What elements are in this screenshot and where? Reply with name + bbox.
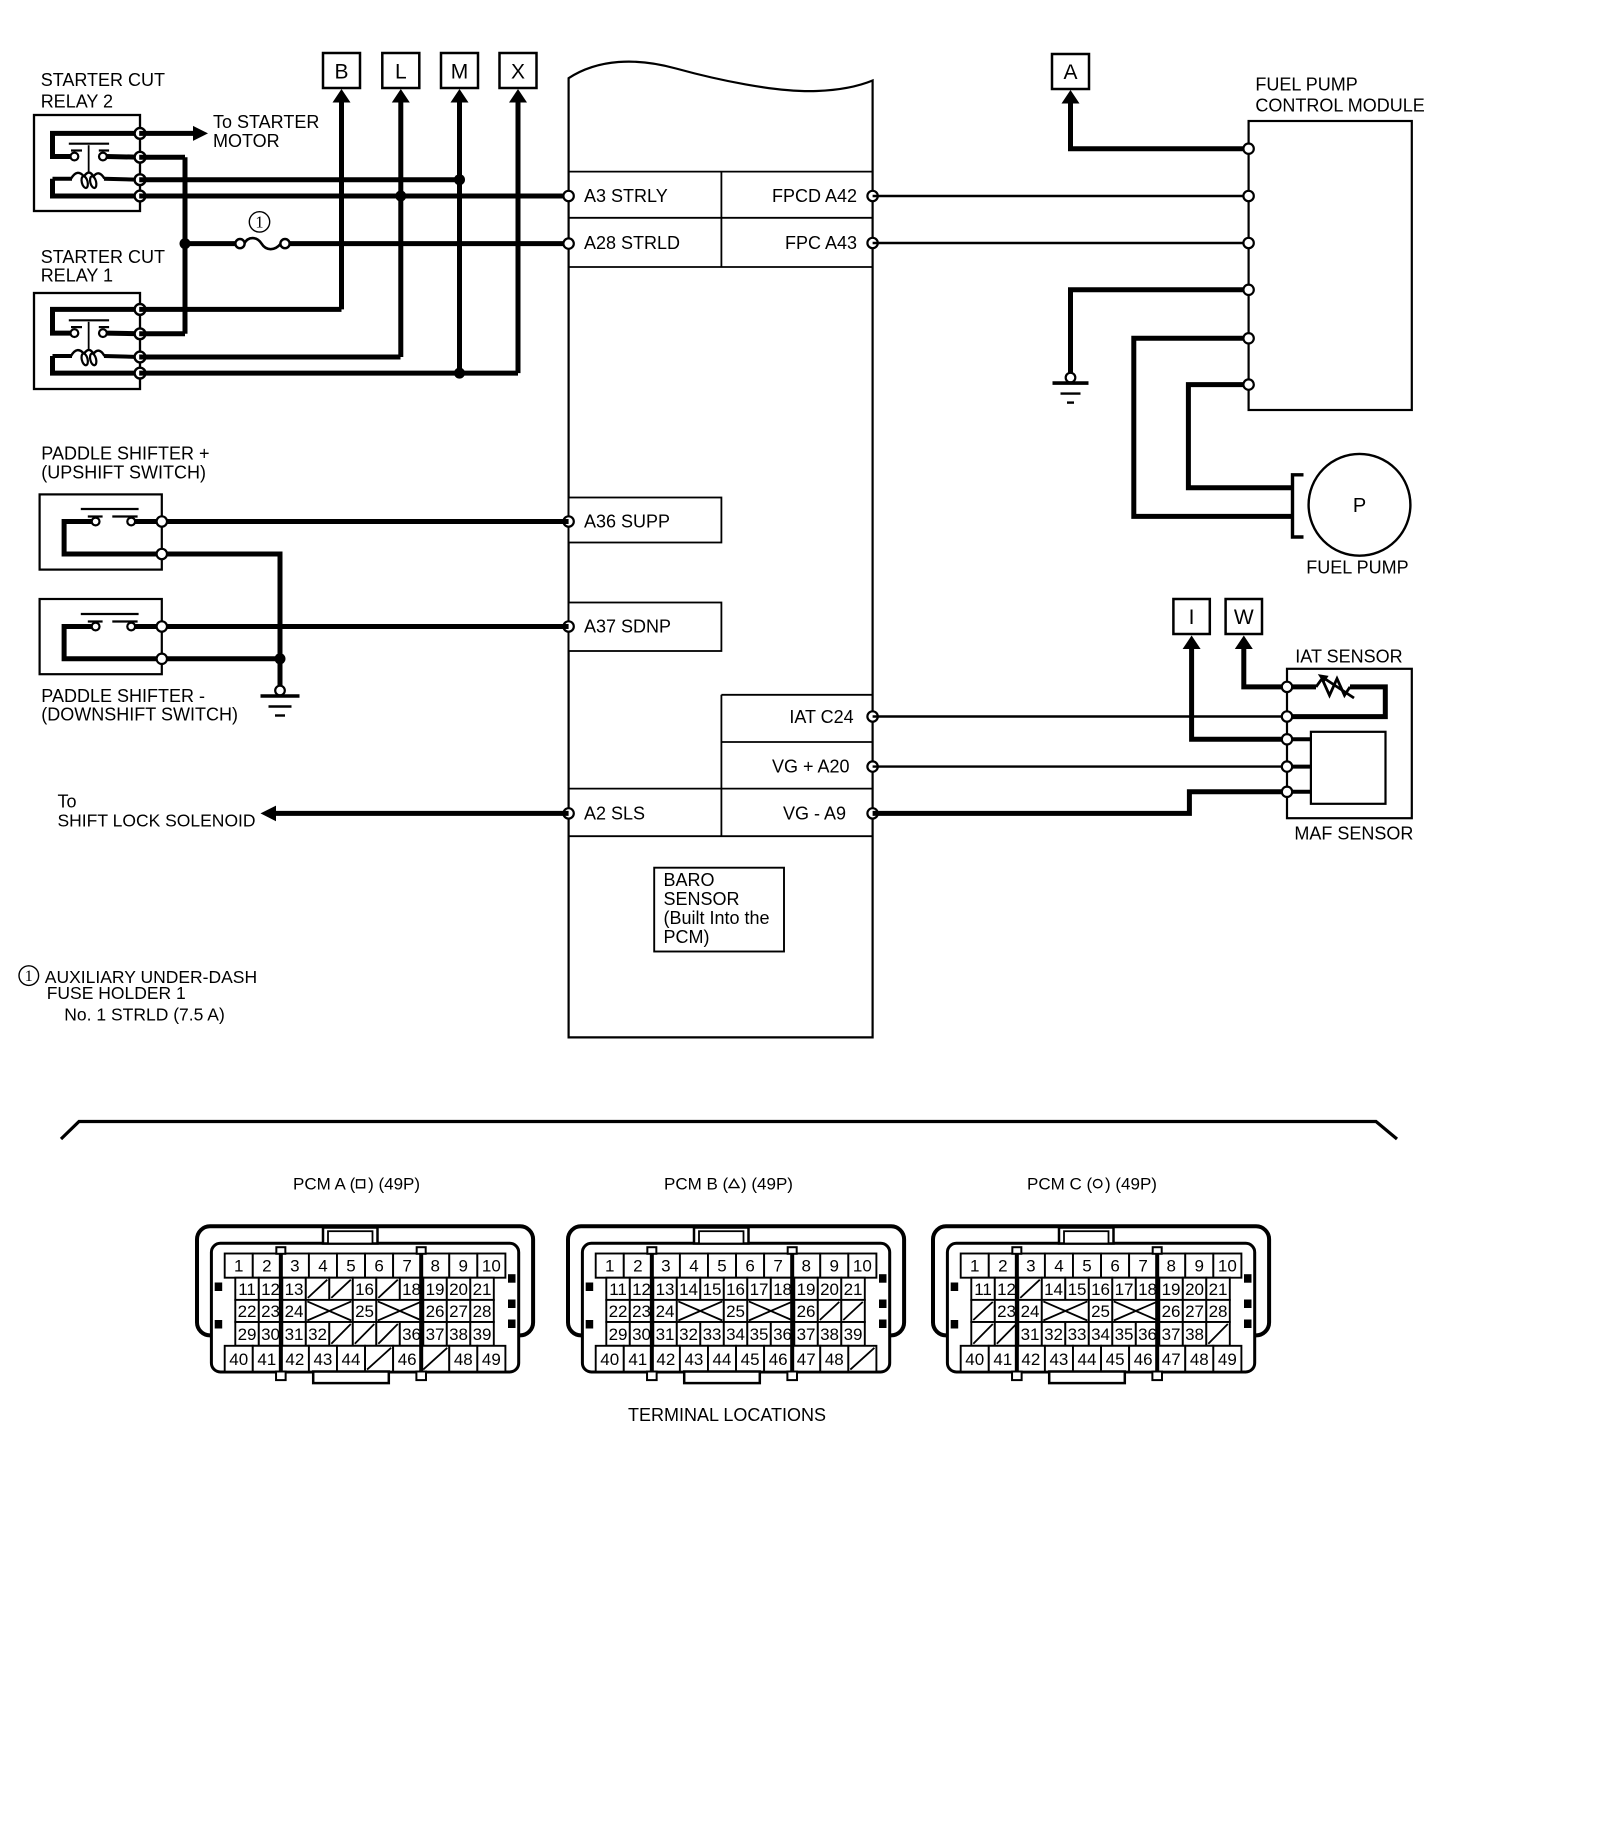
svg-text:44: 44 bbox=[1078, 1350, 1097, 1369]
svg-text:) (49P): ) (49P) bbox=[1105, 1175, 1157, 1194]
svg-text:1: 1 bbox=[25, 968, 33, 985]
svg-text:W: W bbox=[1234, 606, 1254, 629]
svg-text:MAF SENSOR: MAF SENSOR bbox=[1294, 824, 1413, 844]
svg-text:8: 8 bbox=[801, 1257, 810, 1276]
svg-text:13: 13 bbox=[656, 1280, 675, 1299]
svg-text:6: 6 bbox=[374, 1257, 383, 1276]
svg-text:29: 29 bbox=[609, 1325, 628, 1344]
svg-text:32: 32 bbox=[1044, 1325, 1063, 1344]
svg-text:A37 SDNP: A37 SDNP bbox=[584, 616, 671, 636]
svg-text:1: 1 bbox=[605, 1257, 614, 1276]
svg-text:23: 23 bbox=[997, 1302, 1016, 1321]
svg-text:47: 47 bbox=[1162, 1350, 1181, 1369]
svg-text:18: 18 bbox=[402, 1280, 421, 1299]
svg-text:16: 16 bbox=[726, 1280, 745, 1299]
svg-text:38: 38 bbox=[820, 1325, 839, 1344]
svg-text:45: 45 bbox=[1106, 1350, 1125, 1369]
svg-text:A2 SLS: A2 SLS bbox=[584, 803, 645, 823]
svg-text:PCM): PCM) bbox=[664, 927, 710, 947]
svg-text:) (49P): ) (49P) bbox=[368, 1175, 420, 1194]
svg-text:IAT C24: IAT C24 bbox=[789, 707, 853, 727]
svg-text:5: 5 bbox=[346, 1257, 355, 1276]
svg-text:27: 27 bbox=[1185, 1302, 1204, 1321]
svg-text:18: 18 bbox=[1138, 1280, 1157, 1299]
svg-text:34: 34 bbox=[1091, 1325, 1110, 1344]
svg-text:TERMINAL LOCATIONS: TERMINAL LOCATIONS bbox=[628, 1405, 826, 1425]
svg-text:20: 20 bbox=[1185, 1280, 1204, 1299]
svg-text:10: 10 bbox=[1218, 1257, 1237, 1276]
svg-text:SENSOR: SENSOR bbox=[664, 889, 740, 909]
svg-text:12: 12 bbox=[632, 1280, 651, 1299]
svg-text:25: 25 bbox=[355, 1302, 374, 1321]
svg-text:A28 STRLD: A28 STRLD bbox=[584, 233, 680, 253]
svg-text:31: 31 bbox=[1021, 1325, 1040, 1344]
svg-text:48: 48 bbox=[1190, 1350, 1209, 1369]
svg-text:3: 3 bbox=[290, 1257, 299, 1276]
svg-text:3: 3 bbox=[661, 1257, 670, 1276]
svg-text:RELAY 2: RELAY 2 bbox=[41, 92, 113, 112]
svg-text:30: 30 bbox=[632, 1325, 651, 1344]
svg-text:22: 22 bbox=[609, 1302, 628, 1321]
svg-text:4: 4 bbox=[318, 1257, 327, 1276]
svg-text:8: 8 bbox=[1166, 1257, 1175, 1276]
svg-text:21: 21 bbox=[1209, 1280, 1228, 1299]
svg-text:FPCD A42: FPCD A42 bbox=[772, 186, 857, 206]
svg-text:37: 37 bbox=[797, 1325, 816, 1344]
svg-text:43: 43 bbox=[1049, 1350, 1068, 1369]
svg-text:14: 14 bbox=[679, 1280, 698, 1299]
svg-text:42: 42 bbox=[285, 1350, 304, 1369]
svg-text:32: 32 bbox=[679, 1325, 698, 1344]
svg-text:13: 13 bbox=[285, 1280, 304, 1299]
svg-text:3: 3 bbox=[1026, 1257, 1035, 1276]
svg-text:49: 49 bbox=[1218, 1350, 1237, 1369]
svg-text:14: 14 bbox=[1044, 1280, 1063, 1299]
svg-text:48: 48 bbox=[825, 1350, 844, 1369]
svg-text:BARO: BARO bbox=[664, 870, 715, 890]
svg-text:46: 46 bbox=[1134, 1350, 1153, 1369]
svg-text:IAT SENSOR: IAT SENSOR bbox=[1295, 647, 1402, 667]
svg-text:20: 20 bbox=[449, 1280, 468, 1299]
svg-text:28: 28 bbox=[473, 1302, 492, 1321]
svg-text:35: 35 bbox=[750, 1325, 769, 1344]
svg-text:22: 22 bbox=[238, 1302, 257, 1321]
svg-text:21: 21 bbox=[473, 1280, 492, 1299]
svg-text:35: 35 bbox=[1115, 1325, 1134, 1344]
svg-text:16: 16 bbox=[1091, 1280, 1110, 1299]
svg-text:46: 46 bbox=[769, 1350, 788, 1369]
svg-text:21: 21 bbox=[844, 1280, 863, 1299]
svg-text:31: 31 bbox=[656, 1325, 675, 1344]
svg-text:X: X bbox=[511, 60, 525, 83]
svg-text:32: 32 bbox=[308, 1325, 327, 1344]
svg-text:49: 49 bbox=[482, 1350, 501, 1369]
svg-text:PADDLE SHIFTER +: PADDLE SHIFTER + bbox=[41, 444, 209, 464]
svg-text:9: 9 bbox=[830, 1257, 839, 1276]
svg-text:FPC A43: FPC A43 bbox=[785, 233, 857, 253]
svg-text:FUEL PUMP: FUEL PUMP bbox=[1255, 74, 1357, 94]
svg-text:1: 1 bbox=[970, 1257, 979, 1276]
svg-text:L: L bbox=[395, 60, 407, 83]
svg-text:B: B bbox=[334, 60, 348, 83]
svg-text:26: 26 bbox=[797, 1302, 816, 1321]
svg-text:39: 39 bbox=[473, 1325, 492, 1344]
svg-text:43: 43 bbox=[313, 1350, 332, 1369]
svg-text:41: 41 bbox=[257, 1350, 276, 1369]
svg-text:24: 24 bbox=[656, 1302, 675, 1321]
svg-text:To: To bbox=[58, 792, 77, 812]
svg-text:FUEL PUMP: FUEL PUMP bbox=[1306, 558, 1408, 578]
svg-text:40: 40 bbox=[965, 1350, 984, 1369]
svg-text:MOTOR: MOTOR bbox=[213, 131, 280, 151]
svg-text:PCM B (: PCM B ( bbox=[664, 1175, 729, 1194]
svg-text:38: 38 bbox=[1185, 1325, 1204, 1344]
svg-text:10: 10 bbox=[853, 1257, 872, 1276]
svg-text:45: 45 bbox=[741, 1350, 760, 1369]
svg-text:(UPSHIFT SWITCH): (UPSHIFT SWITCH) bbox=[41, 462, 206, 482]
svg-text:40: 40 bbox=[600, 1350, 619, 1369]
svg-text:12: 12 bbox=[997, 1280, 1016, 1299]
svg-text:15: 15 bbox=[703, 1280, 722, 1299]
svg-text:4: 4 bbox=[689, 1257, 698, 1276]
svg-text:46: 46 bbox=[398, 1350, 417, 1369]
svg-text:9: 9 bbox=[1195, 1257, 1204, 1276]
svg-text:37: 37 bbox=[426, 1325, 445, 1344]
svg-text:A3 STRLY: A3 STRLY bbox=[584, 186, 668, 206]
svg-text:36: 36 bbox=[773, 1325, 792, 1344]
svg-text:No. 1 STRLD (7.5 A): No. 1 STRLD (7.5 A) bbox=[64, 1005, 224, 1025]
svg-text:20: 20 bbox=[820, 1280, 839, 1299]
svg-text:26: 26 bbox=[426, 1302, 445, 1321]
svg-text:PCM A (: PCM A ( bbox=[293, 1175, 356, 1194]
svg-text:10: 10 bbox=[482, 1257, 501, 1276]
svg-text:FUSE HOLDER 1: FUSE HOLDER 1 bbox=[47, 983, 186, 1003]
svg-text:17: 17 bbox=[1115, 1280, 1134, 1299]
svg-text:19: 19 bbox=[426, 1280, 445, 1299]
svg-text:STARTER CUT: STARTER CUT bbox=[41, 70, 165, 90]
svg-text:48: 48 bbox=[454, 1350, 473, 1369]
svg-text:16: 16 bbox=[355, 1280, 374, 1299]
svg-text:41: 41 bbox=[628, 1350, 647, 1369]
svg-text:24: 24 bbox=[1021, 1302, 1040, 1321]
svg-text:M: M bbox=[451, 60, 469, 83]
svg-text:PADDLE SHIFTER -: PADDLE SHIFTER - bbox=[41, 686, 205, 706]
svg-text:6: 6 bbox=[1110, 1257, 1119, 1276]
svg-text:VG + A20: VG + A20 bbox=[772, 757, 850, 777]
svg-text:27: 27 bbox=[449, 1302, 468, 1321]
svg-text:36: 36 bbox=[402, 1325, 421, 1344]
svg-text:18: 18 bbox=[773, 1280, 792, 1299]
svg-text:42: 42 bbox=[656, 1350, 675, 1369]
svg-text:11: 11 bbox=[609, 1280, 627, 1299]
svg-text:37: 37 bbox=[1162, 1325, 1181, 1344]
svg-text:P: P bbox=[1353, 495, 1366, 517]
svg-text:31: 31 bbox=[285, 1325, 304, 1344]
svg-text:28: 28 bbox=[1209, 1302, 1228, 1321]
svg-text:PCM C (: PCM C ( bbox=[1027, 1175, 1093, 1194]
svg-text:40: 40 bbox=[229, 1350, 248, 1369]
svg-text:A: A bbox=[1063, 61, 1077, 84]
svg-text:8: 8 bbox=[430, 1257, 439, 1276]
svg-text:VG - A9: VG - A9 bbox=[783, 803, 846, 823]
svg-text:38: 38 bbox=[449, 1325, 468, 1344]
svg-text:11: 11 bbox=[238, 1280, 256, 1299]
svg-text:2: 2 bbox=[262, 1257, 271, 1276]
svg-text:I: I bbox=[1189, 606, 1195, 629]
svg-text:1: 1 bbox=[255, 213, 263, 232]
svg-text:15: 15 bbox=[1068, 1280, 1087, 1299]
svg-text:43: 43 bbox=[684, 1350, 703, 1369]
svg-text:4: 4 bbox=[1054, 1257, 1063, 1276]
svg-text:23: 23 bbox=[261, 1302, 280, 1321]
svg-text:24: 24 bbox=[285, 1302, 304, 1321]
svg-text:19: 19 bbox=[797, 1280, 816, 1299]
svg-text:RELAY 1: RELAY 1 bbox=[41, 266, 113, 286]
svg-text:23: 23 bbox=[632, 1302, 651, 1321]
svg-text:42: 42 bbox=[1021, 1350, 1040, 1369]
svg-text:CONTROL MODULE: CONTROL MODULE bbox=[1255, 96, 1424, 116]
svg-text:SHIFT LOCK SOLENOID: SHIFT LOCK SOLENOID bbox=[58, 811, 256, 831]
svg-text:7: 7 bbox=[1138, 1257, 1147, 1276]
svg-text:2: 2 bbox=[998, 1257, 1007, 1276]
svg-text:7: 7 bbox=[773, 1257, 782, 1276]
svg-text:44: 44 bbox=[713, 1350, 732, 1369]
svg-text:36: 36 bbox=[1138, 1325, 1157, 1344]
svg-text:5: 5 bbox=[1082, 1257, 1091, 1276]
svg-text:25: 25 bbox=[1091, 1302, 1110, 1321]
svg-text:A36 SUPP: A36 SUPP bbox=[584, 511, 670, 531]
svg-text:(DOWNSHIFT SWITCH): (DOWNSHIFT SWITCH) bbox=[41, 705, 238, 725]
svg-text:44: 44 bbox=[342, 1350, 361, 1369]
svg-text:34: 34 bbox=[726, 1325, 745, 1344]
svg-text:33: 33 bbox=[703, 1325, 722, 1344]
svg-text:25: 25 bbox=[726, 1302, 745, 1321]
svg-text:30: 30 bbox=[261, 1325, 280, 1344]
svg-text:12: 12 bbox=[261, 1280, 280, 1299]
svg-text:(Built Into the: (Built Into the bbox=[664, 908, 770, 928]
svg-text:2: 2 bbox=[633, 1257, 642, 1276]
svg-text:5: 5 bbox=[717, 1257, 726, 1276]
svg-text:STARTER CUT: STARTER CUT bbox=[41, 247, 165, 267]
svg-text:7: 7 bbox=[402, 1257, 411, 1276]
svg-text:26: 26 bbox=[1162, 1302, 1181, 1321]
svg-text:1: 1 bbox=[234, 1257, 243, 1276]
svg-text:6: 6 bbox=[745, 1257, 754, 1276]
svg-text:19: 19 bbox=[1162, 1280, 1181, 1299]
svg-text:41: 41 bbox=[993, 1350, 1012, 1369]
svg-text:9: 9 bbox=[459, 1257, 468, 1276]
svg-text:33: 33 bbox=[1068, 1325, 1087, 1344]
svg-text:17: 17 bbox=[750, 1280, 769, 1299]
svg-text:) (49P): ) (49P) bbox=[741, 1175, 793, 1194]
svg-text:11: 11 bbox=[974, 1280, 992, 1299]
svg-text:To STARTER: To STARTER bbox=[213, 112, 319, 132]
svg-text:29: 29 bbox=[238, 1325, 257, 1344]
svg-text:39: 39 bbox=[844, 1325, 863, 1344]
svg-text:47: 47 bbox=[797, 1350, 816, 1369]
